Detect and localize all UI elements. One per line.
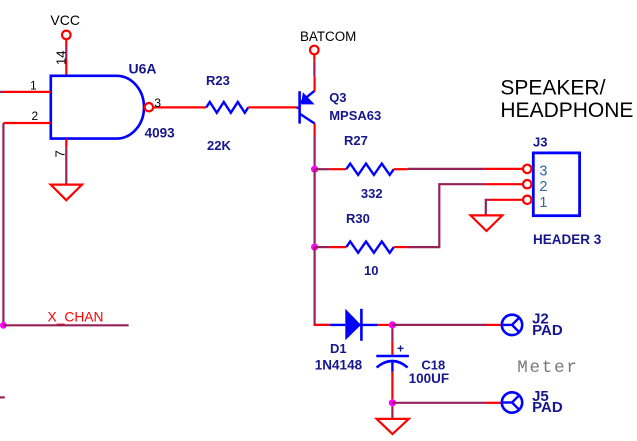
wire stub bottom left: [0, 396, 5, 398]
svg-text:10: 10: [364, 263, 378, 278]
node junction at R30: [311, 244, 318, 251]
wire C18 junction to ground: [391, 406, 393, 419]
power symbol BATCOM: [310, 46, 319, 61]
J3 pin circle 2: [523, 180, 531, 188]
transistor Q3: [297, 91, 315, 124]
svg-text:R30: R30: [346, 211, 370, 226]
op-amp U6A nand gate body: [51, 76, 144, 139]
svg-text:D1: D1: [330, 341, 347, 356]
J5 lead: [486, 402, 502, 404]
diode D1: [330, 309, 378, 341]
resistor R23: [206, 102, 248, 113]
svg-text:U6A: U6A: [129, 60, 157, 76]
wire R23 to Q3 base: [248, 106, 296, 108]
node junction at R27: [311, 166, 318, 173]
svg-text:+: +: [397, 341, 404, 355]
pin 2 lead: [3, 122, 50, 124]
emitter stub Q3: [314, 77, 316, 92]
svg-text:R27: R27: [344, 133, 368, 148]
D1 cathode lead: [378, 324, 389, 326]
wire left vertical to X_CHAN: [2, 123, 4, 325]
svg-text:2: 2: [32, 109, 39, 123]
power symbol VCC: [62, 31, 71, 47]
output bubble: [145, 103, 153, 111]
svg-text:HEADPHONE: HEADPHONE: [500, 99, 633, 122]
pin 14 stub: [65, 60, 67, 76]
wire to J2: [392, 324, 486, 326]
C18 bottom lead: [391, 372, 393, 400]
wire R30 junction down to D1: [315, 247, 331, 325]
svg-text:Meter: Meter: [517, 358, 579, 378]
wire junction to R30: [314, 169, 316, 247]
J2 lead: [486, 324, 502, 326]
ground at J3: [471, 215, 503, 231]
J3 pin 1 lead: [489, 199, 523, 201]
R30 right lead: [394, 246, 408, 248]
wire R30 to J3 pin 2: [408, 184, 486, 247]
pad J2: [502, 315, 522, 335]
R27 left lead: [330, 168, 346, 170]
wire X_CHAN: [3, 324, 128, 326]
svg-text:VCC: VCC: [50, 12, 80, 28]
R27 right lead: [394, 168, 408, 170]
svg-text:3: 3: [539, 164, 547, 180]
wire junction to R30 lead: [315, 246, 330, 248]
C18 top lead: [391, 341, 393, 356]
svg-text:100UF: 100UF: [409, 371, 450, 386]
svg-text:22K: 22K: [207, 138, 231, 153]
svg-text:3: 3: [154, 96, 161, 110]
R30 left lead: [330, 246, 346, 248]
wire pin 1 input: [0, 91, 4, 93]
svg-text:PAD: PAD: [532, 322, 563, 339]
collector stub Q3: [314, 124, 316, 136]
svg-text:4093: 4093: [145, 126, 176, 141]
wire collector to junction: [314, 136, 316, 170]
wire corner to D1 anode (red part): [315, 324, 331, 326]
svg-text:R23: R23: [206, 73, 230, 88]
svg-text:7: 7: [53, 150, 68, 157]
pin 1 lead: [4, 91, 51, 93]
svg-text:HEADER 3: HEADER 3: [533, 232, 602, 247]
node junction X_CHAN: [0, 322, 7, 329]
svg-text:14: 14: [53, 51, 68, 65]
wire J3 pin1 to ground: [486, 200, 489, 216]
wire VCC to pin 14: [65, 47, 67, 61]
wire pin7 to ground: [65, 147, 67, 184]
wire BATCOM down: [313, 61, 315, 77]
svg-text:BATCOM: BATCOM: [300, 29, 356, 44]
svg-text:J3: J3: [533, 134, 547, 149]
svg-text:MPSA63: MPSA63: [329, 108, 381, 123]
capacitor C18: [376, 341, 409, 371]
svg-text:PAD: PAD: [532, 399, 563, 416]
resistor R30: [346, 242, 394, 253]
svg-text:SPEAKER/: SPEAKER/: [500, 77, 605, 100]
J3 pin circle 3: [523, 165, 531, 173]
resistor R27: [346, 164, 394, 175]
svg-text:1N4148: 1N4148: [315, 357, 363, 372]
ground under U6A: [51, 185, 82, 201]
svg-text:1: 1: [539, 195, 547, 211]
J3 pin 2 lead: [486, 183, 523, 185]
svg-text:X_CHAN: X_CHAN: [48, 310, 104, 325]
svg-text:2: 2: [539, 179, 547, 195]
wire C18 top: [391, 328, 393, 341]
wire R27 to J3 pin 3: [408, 168, 485, 170]
svg-text:Q3: Q3: [329, 90, 346, 105]
svg-text:332: 332: [361, 186, 383, 201]
node junction C18 bottom: [389, 399, 396, 406]
J3 pin circle 1: [523, 196, 531, 204]
wire to J5: [392, 402, 486, 404]
pin 7 stub: [65, 139, 67, 148]
pad J5: [502, 392, 522, 412]
wire junction to R27: [315, 168, 330, 170]
svg-text:1: 1: [30, 78, 37, 92]
pin 3 output lead: [153, 106, 206, 108]
node junction D1/C18: [389, 321, 396, 328]
connector J3: [533, 153, 579, 216]
J3 pin 3 lead: [484, 168, 523, 170]
ground under C18: [377, 419, 409, 434]
